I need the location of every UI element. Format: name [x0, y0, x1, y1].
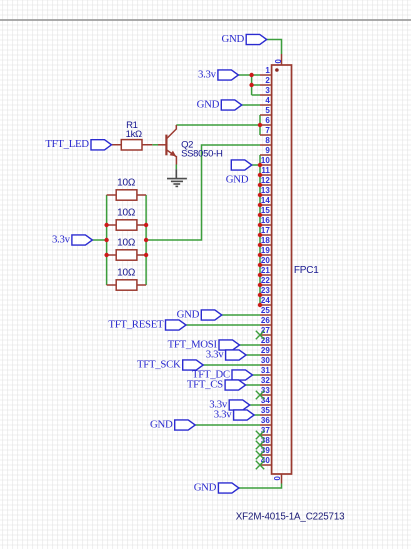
- net port GND (pin 25): [177, 308, 222, 320]
- svg-text:22: 22: [261, 276, 270, 285]
- connector FPC1 body: [272, 65, 292, 474]
- pin 38: [260, 436, 272, 445]
- svg-text:3: 3: [265, 86, 270, 95]
- svg-text:5: 5: [265, 106, 270, 115]
- svg-text:10Ω: 10Ω: [117, 208, 136, 219]
- pin 34: [260, 396, 272, 405]
- svg-text:11: 11: [261, 166, 270, 175]
- svg-text:21: 21: [261, 266, 270, 275]
- net port 3.3v (pin 1): [198, 68, 238, 80]
- pin 33: [260, 386, 272, 395]
- no-connect X pin 40: [256, 461, 264, 469]
- pin 14: [260, 196, 272, 205]
- svg-text:31: 31: [261, 366, 270, 375]
- wire GND to pin 25: [222, 314, 260, 316]
- wire resistor bank right rail: [145, 195, 147, 285]
- pin 18: [260, 236, 272, 245]
- wire TFT_MOSI to pin 28: [240, 344, 261, 346]
- wire R1 to Q2 base: [152, 144, 158, 146]
- svg-text:15: 15: [261, 206, 270, 215]
- pin 2: [260, 76, 272, 85]
- svg-text:10Ω: 10Ω: [117, 178, 136, 189]
- resistor 10Ω #3: [107, 238, 147, 261]
- svg-text:26: 26: [261, 316, 270, 325]
- pin 21: [260, 266, 272, 275]
- wire GND top to pin0: [267, 40, 282, 55]
- svg-text:18: 18: [261, 236, 270, 245]
- svg-text:12: 12: [261, 176, 270, 185]
- no-connect X pin 39: [256, 451, 264, 459]
- resistor 10Ω #4: [107, 268, 147, 290]
- pin 7: [260, 126, 272, 135]
- svg-text:SS8050-H: SS8050-H: [181, 149, 223, 160]
- wire GND to pin 4: [242, 104, 260, 106]
- svg-text:19: 19: [261, 246, 270, 255]
- svg-text:7: 7: [265, 126, 270, 135]
- svg-text:30: 30: [261, 356, 270, 365]
- svg-text:1kΩ: 1kΩ: [126, 129, 142, 140]
- junction dots 3.3v pins 1-2: [249, 73, 253, 87]
- junction dots GND rail pins 10-24: [258, 163, 262, 307]
- svg-text:10Ω: 10Ω: [117, 268, 136, 279]
- svg-text:GND: GND: [222, 33, 245, 45]
- net port 3.3v (pin 29): [206, 348, 246, 360]
- pin 29: [260, 346, 272, 355]
- net port GND (pin 10): [226, 160, 252, 185]
- svg-text:29: 29: [261, 346, 270, 355]
- wire GND to pin 36: [195, 424, 260, 426]
- pin 17: [260, 226, 272, 235]
- svg-text:GND: GND: [150, 418, 173, 430]
- pin 4: [260, 96, 272, 105]
- pin 10: [260, 156, 272, 165]
- pin 3: [260, 86, 272, 95]
- no-connect X pin 33: [256, 391, 264, 399]
- pin 8: [260, 136, 272, 145]
- wire GND bottom to pin0: [239, 484, 282, 489]
- wire 3.3v to pin 35: [254, 414, 260, 416]
- net port TFT_LED: [45, 138, 111, 150]
- pin 23: [260, 286, 272, 295]
- svg-text:GND: GND: [194, 481, 217, 493]
- resistor 10Ω #1: [107, 178, 147, 201]
- no-connect X pin 27: [256, 331, 264, 339]
- net port TFT_DC (pin 31): [192, 368, 252, 380]
- svg-text:3.3v: 3.3v: [52, 233, 71, 245]
- svg-text:36: 36: [261, 416, 270, 425]
- wire TFT_SCK to pin 30: [203, 364, 260, 366]
- wire 3.3v to pin 34: [250, 404, 260, 406]
- pin 15: [260, 206, 272, 215]
- no-connect X pin 37: [256, 431, 264, 439]
- svg-text:10Ω: 10Ω: [117, 238, 136, 249]
- svg-text:8: 8: [265, 136, 270, 145]
- pin 1: [260, 66, 272, 75]
- sheet border line: [0, 19, 411, 21]
- resistor 10Ω #2: [107, 208, 147, 231]
- net port GND (pin 4): [197, 98, 242, 110]
- net port TFT_RESET (pin 26): [108, 318, 186, 330]
- svg-text:25: 25: [261, 306, 270, 315]
- svg-text:0: 0: [272, 476, 281, 481]
- svg-text:20: 20: [261, 256, 270, 265]
- pin 31: [260, 366, 272, 375]
- no-connect X pin 38: [256, 441, 264, 449]
- pin 19: [260, 246, 272, 255]
- wire resistor bank to pin 8: [146, 145, 260, 240]
- wire Q2 emitter to ground: [175, 165, 177, 170]
- pin 11: [260, 166, 272, 175]
- pin 0 top stub: [273, 54, 282, 65]
- ground: [167, 169, 187, 186]
- svg-text:TFT_CS: TFT_CS: [187, 378, 223, 390]
- wire 3.3v to pins 1-3: [238, 75, 260, 95]
- svg-text:6: 6: [265, 116, 270, 125]
- svg-text:17: 17: [261, 226, 270, 235]
- wire resistor bank left rail: [106, 195, 108, 285]
- pin 32: [260, 376, 272, 385]
- pin 39: [260, 446, 272, 455]
- net port 3.3v (pin 35): [214, 408, 254, 420]
- wire 3.3v feed to resistor bank: [92, 239, 106, 241]
- pin 6: [260, 116, 272, 125]
- net port GND (pin 36): [150, 418, 195, 430]
- svg-text:1: 1: [265, 66, 270, 75]
- pin 26: [260, 316, 272, 325]
- pin 30: [260, 356, 272, 365]
- svg-text:4: 4: [265, 96, 270, 105]
- pin 1 marker dot: [275, 68, 279, 72]
- pin 35: [260, 406, 272, 415]
- net port 3.3v (pin 34): [209, 398, 249, 410]
- pin 36: [260, 416, 272, 425]
- pin 16: [260, 216, 272, 225]
- pin 12: [260, 176, 272, 185]
- svg-text:9: 9: [265, 146, 270, 155]
- transistor Q2 SS8050-H: [158, 125, 223, 165]
- svg-text:35: 35: [261, 406, 270, 415]
- svg-text:TFT_LED: TFT_LED: [45, 138, 89, 150]
- net port GND (bottom, pin 0): [194, 481, 239, 493]
- wire GND rail pins 9-24: [259, 155, 261, 305]
- svg-text:GND: GND: [197, 98, 220, 110]
- net port 3.3v (resistor bank): [52, 233, 92, 245]
- svg-text:2: 2: [265, 76, 270, 85]
- net port GND (top, pin 0): [222, 33, 267, 45]
- resistor R1 1k: [112, 120, 153, 150]
- junction dots resistor bank: [104, 223, 148, 257]
- svg-text:3.3v: 3.3v: [198, 68, 217, 80]
- pin 24: [260, 296, 272, 305]
- pin 40: [260, 456, 272, 465]
- pin 9: [260, 146, 272, 155]
- svg-text:3.3v: 3.3v: [214, 408, 233, 420]
- svg-text:TFT_RESET: TFT_RESET: [108, 318, 164, 330]
- junction dot collector pin 6: [258, 123, 262, 127]
- pin 25: [260, 306, 272, 315]
- svg-text:32: 32: [261, 376, 270, 385]
- wire TFT_DC to pin 31: [253, 374, 261, 376]
- svg-text:0: 0: [273, 59, 282, 64]
- pin 0 bottom stub: [272, 474, 282, 484]
- pin 20: [260, 256, 272, 265]
- pin 22: [260, 276, 272, 285]
- wire GND port to pin 10: [252, 164, 260, 166]
- svg-text:23: 23: [261, 286, 270, 295]
- svg-text:GND: GND: [177, 308, 200, 320]
- pin 37: [260, 426, 272, 435]
- svg-text:16: 16: [261, 216, 270, 225]
- pin 13: [260, 186, 272, 195]
- pin 27: [260, 326, 272, 335]
- svg-text:XF2M-4015-1A_C225713: XF2M-4015-1A_C225713: [236, 511, 345, 522]
- net port TFT_SCK (pin 30): [137, 358, 203, 370]
- svg-text:13: 13: [261, 186, 270, 195]
- svg-text:14: 14: [261, 196, 270, 205]
- svg-text:3.3v: 3.3v: [206, 348, 225, 360]
- net port TFT_CS (pin 32): [187, 378, 246, 390]
- svg-text:TFT_SCK: TFT_SCK: [137, 358, 181, 370]
- svg-text:FPC1: FPC1: [294, 265, 319, 276]
- wire TFT_CS to pin 32: [246, 384, 260, 386]
- net port TFT_MOSI (pin 28): [168, 338, 240, 350]
- pin 28: [260, 336, 272, 345]
- wire Q2 collector to pins 5-7: [176, 115, 260, 135]
- wire TFT_RESET to pin 26: [186, 324, 260, 326]
- svg-text:10: 10: [261, 156, 270, 165]
- svg-text:GND: GND: [226, 173, 249, 185]
- wire 3.3v to pin 29: [246, 354, 260, 356]
- pin 5: [260, 106, 272, 115]
- svg-text:24: 24: [261, 296, 270, 305]
